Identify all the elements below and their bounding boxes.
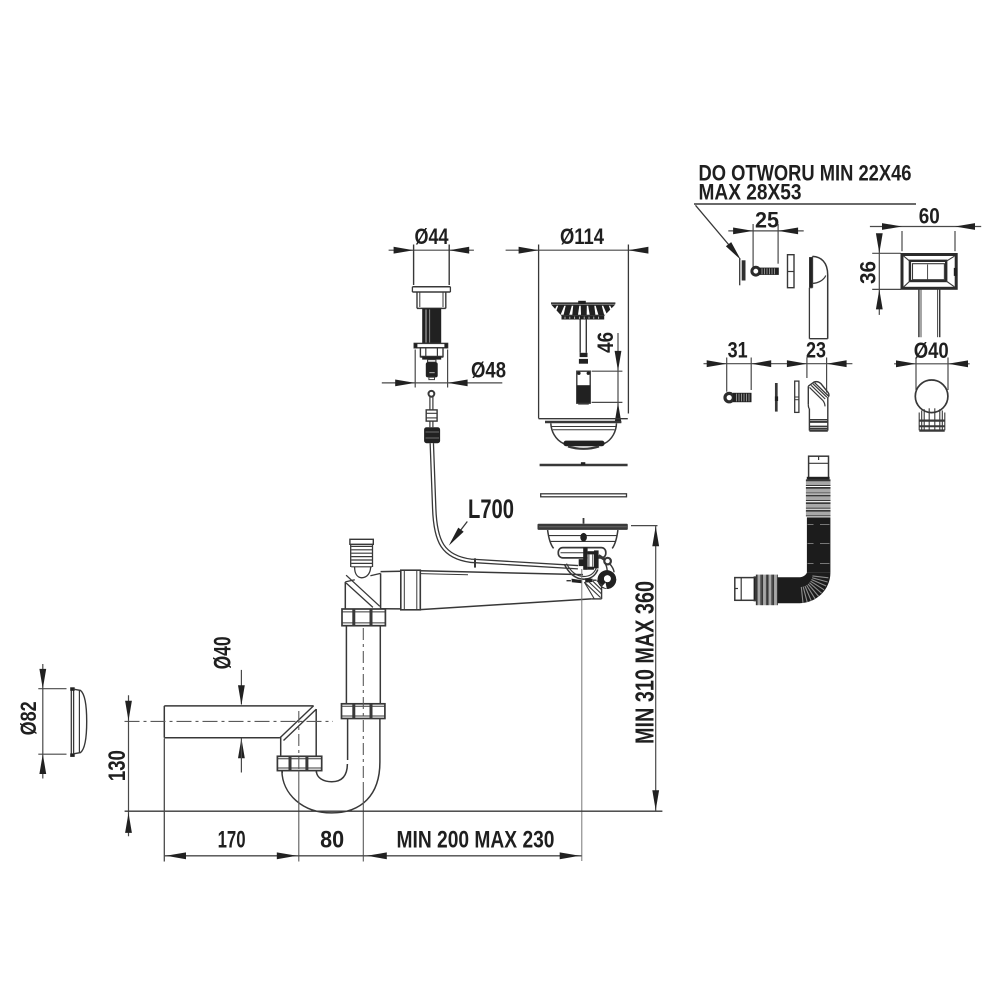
- svg-text:25: 25: [755, 208, 779, 233]
- svg-text:L700: L700: [468, 494, 514, 524]
- svg-text:Ø40: Ø40: [210, 636, 237, 669]
- svg-text:60: 60: [919, 204, 940, 229]
- svg-text:170: 170: [218, 827, 246, 854]
- svg-text:Ø114: Ø114: [560, 224, 605, 249]
- svg-text:MIN 200 MAX 230: MIN 200 MAX 230: [397, 827, 555, 854]
- svg-text:130: 130: [104, 750, 131, 781]
- svg-text:Ø48: Ø48: [471, 358, 506, 383]
- svg-text:MAX 28X53: MAX 28X53: [699, 180, 802, 205]
- svg-text:36: 36: [856, 261, 881, 284]
- svg-text:46: 46: [593, 332, 618, 353]
- svg-text:MIN 310 MAX 360: MIN 310 MAX 360: [630, 581, 660, 744]
- svg-text:31: 31: [728, 338, 748, 363]
- svg-text:23: 23: [806, 338, 826, 363]
- svg-text:Ø40: Ø40: [914, 338, 949, 363]
- svg-text:Ø44: Ø44: [415, 224, 450, 249]
- svg-text:Ø82: Ø82: [16, 701, 41, 735]
- svg-text:80: 80: [320, 827, 344, 854]
